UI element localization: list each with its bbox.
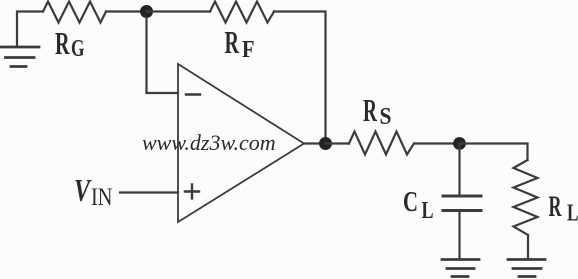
svg-text:www.dz3w.com: www.dz3w.com	[142, 130, 276, 155]
label R_S	[363, 92, 392, 130]
wire RS to node C	[414, 142, 459, 144]
wire RG to node A	[106, 10, 146, 12]
wire node C to RL	[460, 144, 528, 161]
ground (below CL)	[442, 260, 479, 277]
wire ground to RG	[17, 12, 43, 48]
svg-text:R: R	[55, 25, 70, 61]
wire node A to RF	[147, 10, 211, 12]
svg-text:F: F	[242, 37, 255, 63]
wire RF to output node (feedback)	[274, 12, 326, 138]
wire output node to RS	[326, 142, 350, 144]
svg-text:V: V	[74, 172, 92, 208]
resistor R_F	[210, 2, 274, 23]
wire node A to inverting input	[147, 18, 179, 93]
wire CL to ground	[458, 212, 460, 259]
resistor R_S	[349, 132, 414, 155]
resistor R_L	[514, 160, 538, 235]
wire VIN to non-inverting input	[120, 191, 178, 193]
svg-text:R: R	[549, 190, 562, 223]
resistor R_G	[43, 2, 106, 23]
label C_L	[403, 187, 434, 224]
svg-text:S: S	[380, 104, 392, 130]
svg-text:G: G	[71, 36, 85, 62]
label R_L	[549, 190, 578, 227]
wire RL to ground	[527, 235, 529, 259]
op-amp U1	[178, 64, 304, 222]
svg-text:L: L	[422, 198, 434, 224]
wire node C down to CL	[458, 144, 460, 195]
svg-text:C: C	[403, 187, 418, 218]
node B (output node)	[319, 137, 332, 150]
ground (input, top-left)	[0, 47, 39, 67]
ground (below RL)	[508, 260, 545, 277]
label R_G	[55, 25, 85, 62]
svg-text:L: L	[567, 201, 578, 227]
svg-text:R: R	[225, 24, 240, 60]
label R_F	[225, 24, 255, 63]
wire op-amp output	[304, 142, 325, 144]
label V_IN	[74, 172, 113, 211]
svg-text:R: R	[363, 92, 378, 128]
capacitor C_L	[443, 196, 481, 211]
node A (inverting-input junction)	[140, 5, 153, 18]
node C (load node)	[453, 137, 466, 150]
svg-text:IN: IN	[91, 184, 113, 211]
